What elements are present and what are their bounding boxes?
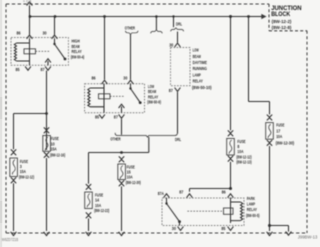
low beam relay box (85, 84, 145, 113)
fuse 14 body (85, 192, 93, 209)
fuse 15 terminals bottom (119, 180, 124, 186)
svg-text:(8W-12-30): (8W-12-30) (276, 141, 295, 146)
svg-text:DRL: DRL (176, 22, 182, 27)
svg-text:17: 17 (276, 128, 280, 133)
high beam relay box (11, 38, 68, 66)
brace DRL (171, 28, 184, 32)
label bus with hooks (115, 133, 177, 137)
park lamp relay label (246, 196, 260, 218)
svg-text:BLOCK: BLOCK (271, 11, 290, 18)
brace to other circuits (151, 30, 163, 34)
junction block label (271, 5, 302, 30)
svg-text:≈ C3: ≈ C3 (23, 0, 32, 3)
svg-text:30: 30 (169, 42, 173, 47)
svg-text:(8W-50-5): (8W-50-5) (246, 213, 260, 218)
LB coil zigzag (88, 88, 104, 107)
svg-text:(8W-12-30): (8W-12-30) (126, 180, 142, 185)
park coil core (224, 208, 234, 214)
svg-text:30: 30 (43, 30, 47, 35)
DRL relay label (192, 48, 212, 90)
park lamp relay box (162, 198, 244, 226)
wire bus to fuse 8 (230, 17, 232, 131)
wire OTHER to LB30 (130, 34, 132, 79)
fuse 14 label (94, 193, 110, 214)
fuse 17 terminals bottom (267, 140, 272, 146)
fuse 17 label (276, 123, 295, 146)
svg-text:87A: 87A (158, 191, 165, 196)
fuse 10 terminals top (44, 127, 49, 133)
top bus wire (30, 16, 249, 18)
park pin 30 terminal (178, 227, 184, 231)
fuse 8 label (236, 139, 252, 165)
top edge cut text (23, 0, 32, 3)
fuse 15 terminals top (119, 156, 124, 162)
svg-text:(8W-12-13): (8W-12-13) (236, 159, 252, 164)
svg-text:86: 86 (92, 76, 96, 81)
svg-text:DAYTIME: DAYTIME (193, 60, 207, 65)
LB pin 30 terminal (128, 80, 134, 84)
svg-text:FUSE: FUSE (276, 123, 284, 128)
LB 87 contact stub (121, 106, 123, 112)
svg-text:10A: 10A (95, 203, 102, 208)
bottom right stamp (298, 235, 318, 240)
junction block dashed border right (306, 31, 308, 233)
high beam relay label (71, 39, 85, 60)
fuse 8 body (227, 138, 235, 155)
fuse 10 terminals bottom (44, 152, 49, 158)
left scan edge shading (0, 0, 2, 247)
wire LB87 down (121, 119, 123, 135)
park coil branch (230, 198, 232, 223)
svg-text:85: 85 (16, 67, 20, 72)
svg-text:86: 86 (222, 190, 226, 195)
wire DRL87 down (177, 92, 179, 133)
OTHER label 2 (110, 137, 121, 142)
wire fuse 3 to border (13, 183, 15, 231)
fuse 15 body (118, 164, 126, 180)
DRL label 2 (175, 137, 181, 142)
brace stem from bus (155, 17, 157, 30)
svg-text:85: 85 (95, 115, 99, 120)
node dot fuse branch (45, 112, 48, 115)
HB linkage dashes (36, 50, 50, 52)
node dot bottom right (268, 224, 271, 227)
svg-text:87: 87 (169, 88, 173, 93)
fuse 8 terminals top (228, 130, 233, 136)
park pin 87 terminal (187, 194, 193, 198)
HB switch (55, 38, 65, 58)
bottom terminal 4 (119, 232, 125, 236)
svg-text:(8W-50-9): (8W-50-9) (147, 100, 161, 105)
svg-text:15A: 15A (51, 146, 58, 151)
DRL pin 30 terminal (175, 43, 181, 47)
top connector C3 (27, 2, 33, 6)
distribution wire to fuses (89, 153, 149, 184)
wire right branch (270, 226, 289, 232)
park pin 85 terminal (228, 227, 234, 231)
bottom terminal right 1 (267, 232, 273, 236)
wire bus to HB30 (54, 17, 56, 35)
bottom left stamp (2, 237, 19, 242)
DRL pin labels (169, 42, 174, 92)
node dot park split (229, 187, 232, 190)
junction block dashed border right step (269, 4, 307, 31)
svg-text:RELAY: RELAY (247, 207, 257, 212)
fuse 15 label (126, 164, 142, 185)
DRL pin 87 terminal (175, 88, 181, 92)
svg-text:(8W-12-12): (8W-12-12) (19, 175, 35, 180)
LB coil branch (103, 84, 105, 113)
HB coil branch (29, 38, 31, 65)
park switch (167, 198, 180, 222)
node dots on bus (29, 15, 250, 18)
svg-text:(8W-12-2): (8W-12-2) (272, 19, 292, 24)
svg-text:OTHER: OTHER (125, 26, 136, 31)
svg-text:DRL: DRL (175, 137, 181, 142)
junction block dashed border top (6, 3, 269, 5)
svg-text:10A: 10A (127, 175, 134, 180)
svg-text:J99BW-13: J99BW-13 (298, 235, 318, 240)
LB switch (131, 84, 141, 103)
bottom terminal 2 (44, 232, 50, 236)
junction block dashed border left (5, 4, 7, 233)
DRL feed stem (173, 17, 175, 28)
svg-text:87: 87 (179, 190, 183, 195)
svg-text:(8W-12-16): (8W-12-16) (50, 152, 66, 157)
low beam relay label (147, 84, 161, 105)
fuse 10 body (43, 136, 51, 152)
svg-text:W8ZD7Z1B: W8ZD7Z1B (2, 237, 19, 242)
HB coil zigzag (14, 43, 29, 61)
jog wire to fuse 3 (14, 114, 47, 150)
svg-text:LAMP: LAMP (247, 202, 255, 207)
wire fuse 10 to border (46, 158, 48, 231)
node dot fuse 15 (120, 151, 123, 154)
LB linkage dashes (110, 95, 124, 97)
bottom terminal 3 (86, 232, 92, 236)
svg-text:10A: 10A (237, 149, 244, 154)
brace under OTHER (125, 31, 138, 35)
wire fuse 14 to border (88, 218, 90, 231)
wire fuse 15 to border (121, 186, 123, 231)
LB pin 85 terminal (99, 114, 105, 118)
bus arrow into junction block (249, 16, 262, 18)
fuse 17 body (266, 123, 274, 140)
svg-text:15A: 15A (20, 169, 27, 174)
HB coil core (24, 49, 36, 54)
svg-text:30: 30 (172, 226, 176, 231)
bottom terminal left (11, 232, 17, 236)
wire to park 87 (190, 189, 231, 192)
fuse 14 terminals top (86, 184, 91, 190)
fuse 14 terminals bottom (86, 212, 91, 218)
svg-text:87: 87 (41, 67, 45, 72)
HB pin 87 terminal (45, 66, 51, 70)
park pin 86 terminal (228, 194, 234, 198)
HB pin 30 terminal (52, 35, 58, 39)
HB pin 86 terminal (27, 35, 33, 39)
OTHER label top (125, 26, 136, 31)
LB pin 86 terminal (102, 80, 108, 84)
svg-text:10A: 10A (276, 134, 283, 139)
wire bus to LB86 (104, 17, 106, 80)
wire bus to HB86 (29, 17, 31, 35)
DRL label top (176, 22, 182, 27)
fuse 3 body (10, 158, 18, 177)
fuse 3 terminals bottom (11, 177, 16, 183)
HB pin labels (16, 30, 47, 72)
svg-text:(8W-12-22): (8W-12-22) (94, 208, 110, 213)
wire brace to DRL30 (177, 32, 179, 43)
wire bus to fuse 17 (249, 17, 270, 115)
svg-text:85: 85 (221, 226, 225, 231)
park pin 30 stub (179, 222, 181, 226)
svg-text:(8W-50-4): (8W-50-4) (71, 54, 85, 59)
HB 87 contact stub (47, 61, 49, 65)
fuse 10 label (50, 136, 66, 157)
park linkage dashes (186, 210, 222, 212)
wire HB87 down (46, 71, 48, 150)
svg-text:30: 30 (123, 76, 127, 81)
wire fuse 8 down to park relay (230, 162, 232, 189)
wire fuse 17 down (269, 146, 271, 226)
bottom terminal right 2 (286, 231, 292, 235)
fuse 3 terminals top (11, 149, 16, 155)
svg-text:LAMP: LAMP (193, 72, 201, 77)
LB pin labels (92, 76, 128, 120)
junction block dashed border bottom (6, 232, 307, 234)
park coil zigzag (231, 202, 243, 221)
LB coil core (99, 94, 111, 99)
park pin 87A terminal (164, 194, 170, 198)
park pin labels (158, 190, 226, 231)
fuse 17 terminals top (267, 115, 272, 121)
svg-text:BEAM: BEAM (193, 54, 201, 59)
svg-text:RELAY: RELAY (193, 79, 203, 84)
LB pin 87 terminal (119, 114, 125, 118)
HB pin 85 terminal (25, 66, 31, 70)
DRL relay box (171, 48, 191, 86)
fuse 3 label (19, 159, 35, 180)
svg-text:86: 86 (17, 30, 21, 35)
svg-text:(8W-50-10): (8W-50-10) (192, 85, 212, 90)
svg-text:OTHER: OTHER (110, 137, 121, 142)
stem down from label bus (148, 137, 150, 153)
svg-text:PARK: PARK (247, 196, 256, 201)
svg-text:LOW: LOW (193, 48, 199, 53)
fuse 8 terminals bottom (228, 156, 233, 162)
svg-text:RUNNING: RUNNING (193, 66, 208, 71)
wire down branch (269, 226, 271, 232)
svg-text:(8W-12-8): (8W-12-8) (272, 25, 292, 30)
svg-text:87: 87 (114, 115, 118, 120)
